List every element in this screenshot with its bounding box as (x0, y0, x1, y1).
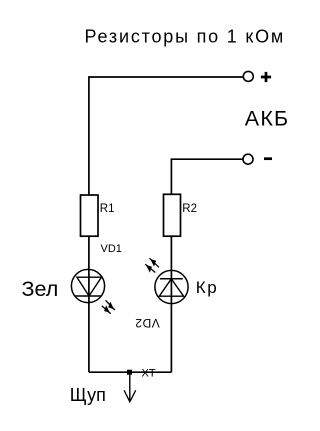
junction node XT dot (127, 370, 132, 375)
svg-text:VD2: VD2 (135, 316, 160, 330)
wire: right horizontal to - terminal (171, 158, 242, 160)
wire: left vertical from R1 through VD1 to bottom (88, 236, 90, 372)
LED VD2 triangle (anode up) (159, 279, 183, 296)
plus symbol (261, 72, 271, 82)
LED VD1 circle (71, 269, 104, 302)
wire: top horizontal to + terminal (89, 76, 243, 78)
svg-text:XT: XT (142, 368, 156, 380)
probe wire (129, 372, 131, 401)
wire: right vertical from R2 through VD2 to bottom (170, 236, 172, 372)
wire: left vertical from top corner to R1 (88, 76, 90, 195)
LED VD2 light arrow 2 (145, 264, 155, 272)
svg-text:VD1: VD1 (101, 243, 122, 255)
LED VD1 light arrow 1 (106, 300, 115, 310)
resistor R1 (81, 195, 99, 236)
LED VD2 cathode bar (top) (160, 278, 183, 280)
svg-text:АКБ: АКБ (245, 106, 290, 130)
minus symbol (264, 157, 272, 160)
svg-text:R2: R2 (182, 203, 197, 215)
svg-text:Щуп: Щуп (70, 385, 106, 405)
svg-text:Резисторы по 1 кОм: Резисторы по 1 кОм (85, 26, 286, 46)
probe arrowhead (124, 390, 136, 402)
LED VD1 triangle (anode down) (77, 277, 102, 296)
svg-text:Зел: Зел (22, 277, 59, 301)
resistor R2 (164, 194, 181, 236)
LED VD2 circle (155, 270, 188, 303)
wire: right vertical from corner to R2 (170, 158, 172, 194)
LED VD1 cathode bar (75, 295, 102, 297)
wire: bottom horizontal (89, 371, 171, 373)
LED VD1 light arrow 2 (102, 305, 111, 313)
terminal - circle (243, 154, 253, 164)
svg-text:Кр: Кр (196, 278, 218, 297)
terminal + circle (243, 71, 253, 81)
svg-text:R1: R1 (100, 203, 115, 215)
LED VD2 light arrow 1 (150, 258, 159, 267)
